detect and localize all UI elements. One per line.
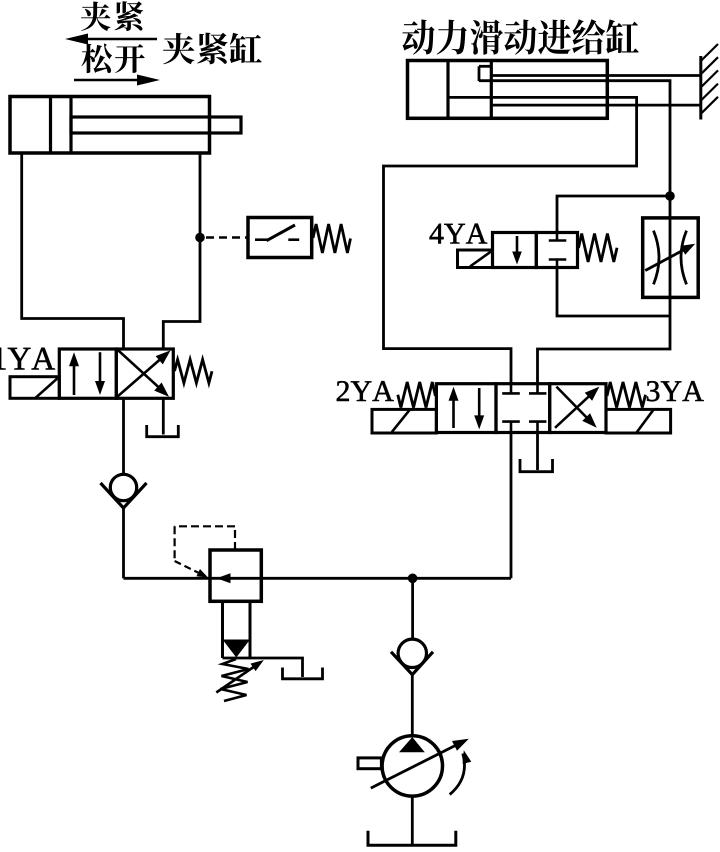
- valve 1YA 4/2 solenoid valve body: [59, 349, 173, 398]
- wire: T port to tank: [536, 433, 539, 471]
- wire: flow-control line down to valve B port: [538, 196, 671, 384]
- solenoid 3YA: [606, 409, 671, 433]
- wire: clamp cylinder right port to 1YA valve B: [163, 153, 200, 349]
- 1YA parallel arrows: [69, 352, 105, 395]
- poppet cone: [223, 640, 251, 658]
- reducing valve lower body: [223, 601, 251, 658]
- wire: clamp cylinder left port to 1YA valve A: [22, 153, 124, 349]
- pressure reducing valve body: [210, 550, 261, 601]
- feed cylinder internal port box: [479, 66, 491, 81]
- feed cylinder hollow rod outline: [491, 76, 701, 106]
- tank under 4/3 valve: [520, 459, 553, 472]
- feed cylinder body: [408, 61, 608, 119]
- wire: pump suction: [411, 796, 414, 845]
- solenoid 2YA: [372, 409, 436, 433]
- label 夹紧缸 (clamping cylinder): [163, 33, 262, 65]
- wire: check valve to pump: [411, 673, 414, 736]
- spring right of 4/3 valve: [607, 382, 646, 408]
- node junction to pressure switch: [195, 233, 205, 243]
- label 1YA: [0, 348, 55, 370]
- tank for reducing valve drain: [283, 668, 323, 679]
- label 2YA: [337, 381, 394, 401]
- node junction at flow-control branch: [665, 191, 675, 201]
- 4YA blocked-position symbols: [549, 233, 567, 268]
- 4YA open-position arrow: [512, 236, 522, 265]
- wire: P port down to pump line: [510, 433, 513, 579]
- check valve (clamp branch): [101, 474, 147, 508]
- wire: 4YA bypass top: [557, 196, 670, 233]
- drain line to tank: [223, 658, 303, 677]
- variable displacement pump: [358, 736, 471, 796]
- wire: 1YA T port to tank: [162, 398, 165, 434]
- tank under 1YA valve: [147, 425, 179, 437]
- label 动力滑动进给缸 (power sliding feed cylinder): [402, 19, 638, 54]
- label 松开 (release): [82, 44, 145, 74]
- solenoid 4YA: [458, 250, 493, 268]
- clamp direction arrow (left): [65, 34, 157, 45]
- spring of 4YA valve: [579, 234, 618, 263]
- check valve (pump outlet): [391, 639, 433, 675]
- wire: main pressure line: [124, 577, 512, 580]
- wire: 1YA P port down: [122, 398, 125, 474]
- spring of 1YA valve: [175, 360, 213, 384]
- right position crossed arrows: [555, 387, 599, 428]
- pilot dashed line to pressure switch: [206, 236, 247, 239]
- release direction arrow (right): [74, 75, 160, 86]
- wire: rod passage to flow-control branch: [479, 81, 670, 196]
- left position parallel arrows: [449, 387, 485, 430]
- tank for pump suction: [368, 831, 456, 846]
- wire: rod passage to A-side: [384, 97, 637, 383]
- label 3YA: [647, 381, 704, 401]
- spring of pressure switch: [313, 224, 351, 253]
- node junction pump line: [408, 574, 418, 584]
- flow control valve (speed regulating): [643, 218, 699, 298]
- wire: 4YA bypass bottom: [557, 268, 670, 317]
- label 4YA: [430, 224, 488, 244]
- label 夹紧 (clamp): [81, 1, 143, 31]
- center position blocked ports: [502, 384, 546, 433]
- valve 2YA/3YA 4/3 solenoid valve body: [436, 384, 606, 433]
- pressure switch: [248, 218, 312, 258]
- fixed wall anchor: [701, 44, 718, 120]
- solenoid 1YA: [10, 377, 59, 399]
- valve 4YA 2/2 solenoid valve body: [493, 233, 578, 268]
- wire: check valve to main line: [122, 507, 125, 579]
- adjusting spring of reducing valve: [221, 659, 249, 701]
- pilot dashed line of reducing valve: [175, 526, 235, 577]
- spring left of 4/3 valve: [398, 382, 436, 408]
- adjustment arrow: [216, 660, 263, 693]
- 1YA crossed arrows: [117, 350, 170, 396]
- clamp cylinder body: [10, 97, 210, 154]
- wire: pump to main line: [411, 578, 414, 639]
- clamp cylinder piston rod: [71, 117, 241, 133]
